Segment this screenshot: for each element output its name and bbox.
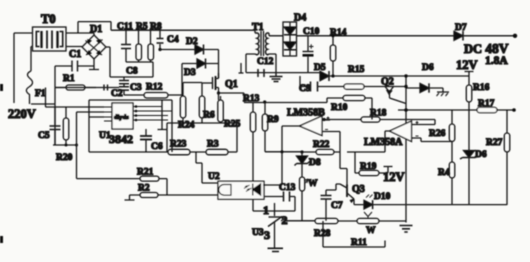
capacitor C4	[157, 30, 179, 49]
svg-text:C9: C9	[299, 84, 311, 94]
svg-text:R25: R25	[224, 120, 241, 130]
ground below T1	[270, 73, 283, 82]
svg-text:U2: U2	[208, 172, 220, 182]
svg-text:C4: C4	[167, 35, 179, 45]
wire input row to R18	[322, 120, 435, 125]
svg-text:2: 2	[282, 213, 288, 227]
svg-text:Q3: Q3	[352, 184, 365, 195]
wire T1 secondary top to D4	[269, 33, 283, 36]
zener D8	[295, 152, 321, 177]
svg-text:3842: 3842	[109, 132, 133, 146]
wire D7 to output terminal	[463, 35, 515, 37]
svg-text:R9: R9	[267, 115, 279, 125]
ground tick near U1	[158, 124, 167, 130]
svg-text:C6: C6	[151, 142, 163, 152]
svg-text:T0: T0	[41, 12, 56, 26]
bottom bus	[406, 204, 507, 206]
wire 220V live to T0	[14, 33, 33, 103]
svg-text:C8: C8	[126, 67, 138, 77]
svg-text:R27: R27	[486, 138, 503, 148]
resistor R14	[330, 28, 347, 76]
optocoupler U2	[208, 172, 264, 199]
svg-text:R5: R5	[136, 22, 148, 32]
wire T1 secondary bottom	[269, 54, 276, 73]
secondary bottom rail	[246, 72, 320, 74]
capacitor C10 electrolytic	[303, 27, 320, 73]
node C4/D2	[158, 48, 161, 51]
svg-text:1.8A: 1.8A	[485, 55, 508, 67]
capacitor C2	[104, 85, 123, 100]
ground tick below bridge	[89, 66, 99, 70]
capacitor C7	[321, 190, 343, 221]
resistor R15	[344, 65, 365, 89]
diode D7	[454, 23, 467, 41]
resistor R26	[429, 110, 455, 162]
svg-text:R6: R6	[203, 111, 215, 121]
resistor R27	[486, 110, 510, 205]
diode D3	[184, 59, 206, 79]
svg-text:R12: R12	[146, 83, 163, 93]
svg-text:C10: C10	[303, 27, 320, 37]
wire R11 row	[323, 221, 385, 247]
resistor R25	[218, 96, 241, 130]
svg-text:12V: 12V	[383, 170, 405, 184]
capacitor C12	[257, 57, 274, 77]
zener D6b column	[468, 110, 470, 151]
wire C11/R5/R8 bottoms	[126, 62, 153, 77]
terminal 12V top	[465, 72, 474, 77]
capacitor C1	[55, 49, 94, 72]
svg-text:W: W	[308, 179, 318, 189]
bridge rectifier D1	[82, 24, 106, 59]
wire U3 pin2 row	[284, 220, 315, 222]
resistor R6	[199, 96, 215, 123]
transistor Q2	[381, 77, 406, 104]
svg-text:DC 48V: DC 48V	[464, 41, 509, 56]
svg-text:R2: R2	[138, 184, 150, 194]
main top rail	[111, 29, 255, 31]
mid rail	[398, 109, 514, 111]
wire bridge right to cap cluster	[106, 47, 110, 77]
wire U1 pin1 row	[46, 88, 105, 108]
wire gate row	[183, 83, 202, 97]
rectifier D4	[283, 13, 306, 57]
svg-text:1: 1	[263, 203, 269, 217]
svg-text:D6: D6	[475, 150, 487, 160]
wire T0 lower pin to bridge	[66, 46, 82, 49]
resistor R22	[313, 140, 334, 155]
diode D10	[354, 192, 406, 209]
zener diode D6b	[460, 150, 487, 205]
resistor R17	[477, 99, 497, 113]
ground tick left of R2	[125, 195, 135, 200]
resistor R10	[331, 95, 365, 113]
svg-text:R24: R24	[178, 121, 195, 131]
svg-text:R22: R22	[313, 140, 330, 150]
resistor R13	[243, 94, 327, 211]
wire R22 row	[302, 152, 347, 169]
wire D2 row	[160, 49, 219, 51]
capacitor C5	[38, 107, 61, 145]
wire LM358B minus input to R22 row	[339, 132, 341, 153]
wire R10 row	[327, 98, 372, 120]
svg-text:W: W	[366, 226, 376, 236]
svg-text:D3: D3	[184, 68, 196, 78]
resistor R18	[361, 109, 387, 123]
resistor R19	[355, 152, 388, 176]
resistor R24	[178, 83, 195, 131]
svg-text:LM358A: LM358A	[364, 137, 403, 148]
capacitor C6	[140, 129, 163, 152]
op-amp LM358B	[263, 108, 340, 186]
svg-text:D10: D10	[374, 192, 391, 202]
wire cap-cluster top row	[110, 76, 153, 78]
svg-text:R19: R19	[360, 162, 377, 172]
capacitor C3	[119, 83, 142, 95]
svg-text:T1: T1	[252, 22, 264, 33]
svg-text:D7: D7	[455, 23, 467, 33]
bottom row: R28 and pot W2	[338, 220, 406, 222]
svg-text:12V: 12V	[456, 58, 478, 72]
wire T1 primary bottom / snubber	[239, 54, 256, 73]
resistor R3	[206, 140, 237, 155]
capacitor C9	[299, 82, 318, 95]
resistor R21	[77, 168, 168, 196]
wire 12V column	[468, 76, 470, 85]
svg-text:diyds: diyds	[114, 114, 129, 121]
ground below U3	[268, 248, 284, 251]
wire R23 row to U2 input	[196, 152, 218, 183]
capacitor C11	[117, 22, 133, 62]
resistor R4	[438, 162, 455, 205]
wire to D6	[406, 76, 420, 223]
svg-text:R10: R10	[331, 103, 348, 113]
wire D3 row	[182, 64, 219, 97]
svg-text:D4: D4	[294, 13, 306, 24]
diode D5	[314, 63, 329, 81]
svg-text:220V: 220V	[8, 107, 36, 121]
svg-text:R23: R23	[170, 140, 187, 150]
wire C5/R20 bottoms	[53, 144, 77, 146]
shunt reference U3	[252, 203, 295, 248]
capacitor C8	[119, 67, 138, 87]
diode D6	[420, 84, 429, 93]
svg-text:C11: C11	[117, 22, 133, 32]
wire U1 pin3 row	[89, 100, 104, 152]
resistor R20	[56, 107, 73, 163]
wire T1 primary top from rail	[254, 30, 256, 33]
wire U1 top to timing node	[89, 100, 172, 152]
svg-text:F1: F1	[35, 89, 46, 99]
resistor R23	[89, 140, 206, 155]
output rail to D7	[297, 35, 455, 37]
wire R24/R6/R25 bottoms	[167, 123, 237, 152]
svg-text:R3: R3	[207, 140, 219, 150]
wire U1 pin2 row	[77, 111, 105, 113]
svg-text:R13: R13	[243, 94, 260, 104]
wire bridge bottom node	[93, 59, 95, 66]
MOSFET Q1	[202, 50, 238, 94]
svg-text:R20: R20	[56, 153, 73, 163]
svg-text:C5: C5	[38, 131, 50, 141]
potentiometer W vertical	[300, 177, 319, 221]
svg-text:R21: R21	[137, 168, 154, 178]
ground after D6	[429, 88, 449, 96]
svg-text:C3: C3	[130, 83, 142, 93]
svg-text:R15: R15	[348, 65, 365, 75]
wire aux mid row with C9	[300, 76, 406, 87]
resistor R28	[314, 218, 338, 239]
diode D2	[186, 37, 204, 55]
op-amp LM358A	[347, 121, 452, 152]
resistor R1	[55, 74, 96, 90]
svg-text:R17: R17	[478, 99, 495, 109]
svg-text:D8: D8	[309, 158, 321, 168]
wire F1 to R1 bracket	[31, 66, 55, 145]
svg-text:C12: C12	[257, 57, 274, 67]
resistor R12	[144, 83, 183, 99]
svg-text:C1: C1	[69, 49, 81, 60]
IC U1 3842	[99, 103, 172, 146]
svg-text:U3: U3	[252, 228, 264, 238]
svg-text:D5: D5	[314, 63, 326, 73]
wire bridge top to rail	[93, 33, 95, 35]
svg-text:3: 3	[264, 228, 270, 242]
wire cap-cluster bottom row	[55, 87, 119, 89]
resistor R8	[148, 22, 162, 62]
fuse F1	[26, 47, 45, 105]
potentiometer W2	[357, 212, 379, 236]
transformer T0 (line filter)	[33, 12, 67, 51]
svg-text:R26: R26	[429, 129, 446, 139]
wire cluster to R12	[124, 94, 144, 96]
capacitor C13	[264, 183, 296, 211]
resistor R16	[466, 83, 489, 110]
wire T0 top to rail	[66, 22, 111, 33]
transistor Q3	[336, 169, 365, 205]
svg-text:R1: R1	[63, 74, 75, 84]
svg-text:R11: R11	[351, 238, 367, 248]
resistor R5	[136, 22, 148, 62]
svg-text:Q1: Q1	[225, 79, 238, 90]
left edge scan marks	[0, 84, 3, 243]
transformer T1	[252, 22, 269, 56]
resistor R2	[130, 184, 219, 198]
wire from U1 area down to opto row	[76, 112, 78, 179]
wire Q1 source node	[217, 91, 220, 94]
12V rail (secondary aux)	[329, 75, 469, 77]
svg-text:D1: D1	[90, 24, 102, 35]
resistor R9	[262, 103, 302, 152]
terminal 12V lower	[384, 166, 393, 168]
svg-text:C7: C7	[331, 201, 343, 211]
svg-text:D6: D6	[422, 63, 434, 73]
svg-text:LM358B: LM358B	[287, 108, 325, 119]
node output terminal	[513, 34, 517, 38]
svg-text:D2: D2	[186, 37, 198, 47]
svg-text:R16: R16	[473, 83, 490, 93]
node LM358B input	[322, 118, 325, 121]
svg-text:R4: R4	[438, 168, 450, 178]
ground main right	[400, 226, 413, 233]
svg-text:R28: R28	[314, 229, 331, 239]
svg-text:R18: R18	[370, 109, 387, 119]
